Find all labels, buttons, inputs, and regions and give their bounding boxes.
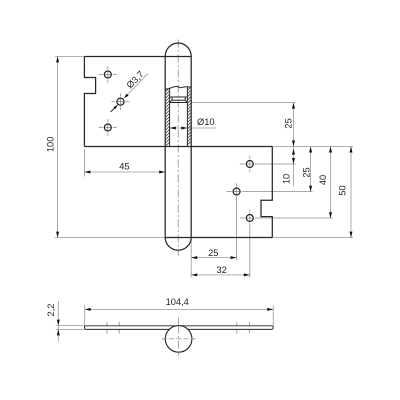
svg-text:25: 25 <box>284 118 294 128</box>
svg-text:104,4: 104,4 <box>166 297 189 307</box>
svg-text:2,2: 2,2 <box>46 304 56 317</box>
svg-text:32: 32 <box>217 265 227 275</box>
svg-text:10: 10 <box>282 174 292 184</box>
svg-text:Ø10: Ø10 <box>197 117 215 127</box>
svg-text:50: 50 <box>337 185 347 195</box>
svg-text:100: 100 <box>46 137 56 153</box>
svg-text:45: 45 <box>119 162 129 172</box>
svg-text:40: 40 <box>318 175 328 185</box>
svg-text:25: 25 <box>208 248 218 258</box>
svg-text:25: 25 <box>302 167 312 177</box>
